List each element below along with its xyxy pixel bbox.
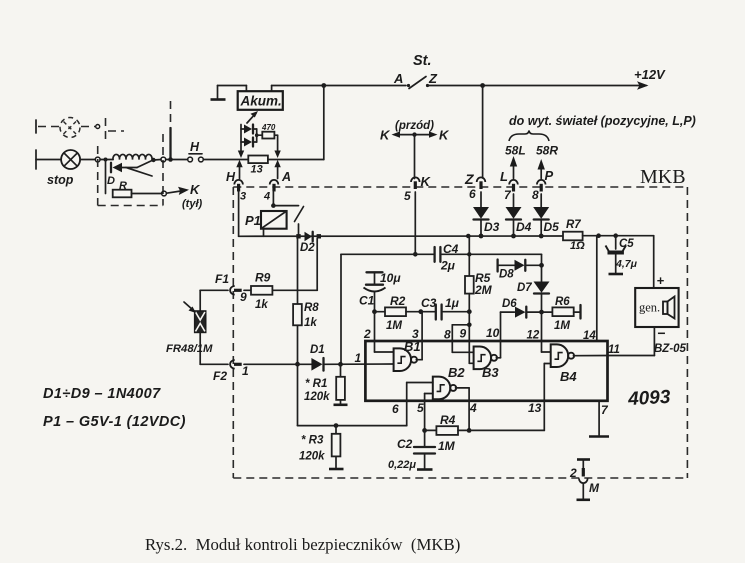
- svg-text:H: H: [190, 140, 200, 154]
- svg-text:R2: R2: [390, 294, 406, 308]
- svg-text:FR48/1M: FR48/1M: [166, 343, 213, 355]
- svg-text:D8: D8: [499, 269, 514, 281]
- svg-text:St.: St.: [413, 53, 432, 69]
- svg-text:D: D: [107, 175, 115, 187]
- svg-text:D1÷D9 – 1N4007: D1÷D9 – 1N4007: [43, 386, 161, 402]
- svg-text:R4: R4: [440, 413, 456, 427]
- svg-text:120k: 120k: [304, 391, 330, 403]
- svg-text:K: K: [380, 128, 391, 143]
- svg-text:P1 – G5V-1 (12VDC): P1 – G5V-1 (12VDC): [43, 414, 186, 430]
- svg-text:1: 1: [242, 364, 249, 378]
- svg-text:* R3: * R3: [301, 435, 324, 447]
- svg-text:1: 1: [355, 351, 362, 365]
- svg-text:1M: 1M: [438, 439, 456, 453]
- svg-text:D4: D4: [516, 220, 532, 234]
- svg-text:(przód): (przód): [395, 120, 434, 132]
- svg-text:1μ: 1μ: [445, 296, 460, 310]
- svg-text:2M: 2M: [474, 283, 493, 297]
- svg-text:10: 10: [486, 326, 500, 340]
- svg-text:−: −: [657, 325, 665, 341]
- svg-text:D6: D6: [502, 298, 517, 310]
- svg-text:13: 13: [528, 401, 542, 415]
- svg-text:K: K: [421, 174, 432, 189]
- svg-text:Z: Z: [428, 71, 438, 86]
- svg-text:B4: B4: [560, 369, 577, 384]
- svg-text:D1: D1: [310, 344, 325, 356]
- svg-text:2: 2: [569, 466, 577, 480]
- svg-text:58R: 58R: [536, 144, 558, 158]
- svg-text:F2: F2: [213, 369, 227, 383]
- svg-text:+12V: +12V: [634, 67, 666, 82]
- svg-text:BZ-05: BZ-05: [654, 343, 687, 355]
- svg-text:B2: B2: [448, 365, 465, 380]
- svg-text:MKB: MKB: [640, 166, 686, 188]
- svg-text:1Ω: 1Ω: [570, 240, 585, 252]
- svg-text:R7: R7: [566, 219, 581, 231]
- svg-text:C5: C5: [619, 238, 634, 250]
- svg-text:470: 470: [261, 123, 276, 132]
- svg-text:120k: 120k: [299, 451, 325, 463]
- svg-text:K: K: [439, 128, 450, 143]
- svg-text:8: 8: [444, 328, 451, 342]
- svg-text:6: 6: [392, 402, 399, 416]
- svg-text:4,7μ: 4,7μ: [615, 258, 638, 270]
- svg-text:1M: 1M: [554, 320, 570, 332]
- svg-text:P: P: [545, 168, 554, 183]
- svg-text:do wyt. świateł (pozycyjne, L,: do wyt. świateł (pozycyjne, L,P): [509, 114, 696, 128]
- svg-text:gen.: gen.: [639, 301, 660, 315]
- svg-text:0,22μ: 0,22μ: [388, 459, 416, 471]
- svg-text:2: 2: [363, 327, 371, 341]
- svg-text:C3: C3: [421, 296, 437, 310]
- svg-text:R8: R8: [304, 302, 319, 314]
- svg-text:11: 11: [608, 344, 620, 356]
- svg-text:M: M: [589, 481, 600, 495]
- svg-text:4: 4: [469, 401, 477, 415]
- svg-text:3: 3: [240, 191, 246, 203]
- svg-text:A: A: [281, 170, 291, 184]
- svg-text:D2: D2: [300, 242, 315, 254]
- svg-text:1k: 1k: [304, 317, 317, 329]
- svg-text:8: 8: [532, 188, 539, 202]
- svg-text:Z: Z: [464, 171, 474, 187]
- svg-text:+: +: [657, 273, 665, 288]
- svg-text:R9: R9: [255, 271, 271, 285]
- svg-text:58L: 58L: [505, 144, 526, 158]
- svg-text:2μ: 2μ: [440, 259, 456, 273]
- svg-text:Akum.: Akum.: [240, 94, 282, 109]
- svg-text:9: 9: [240, 290, 247, 304]
- svg-text:1M: 1M: [386, 320, 402, 332]
- svg-text:D7: D7: [517, 282, 532, 294]
- svg-text:10μ: 10μ: [380, 271, 401, 285]
- svg-text:C1: C1: [359, 294, 375, 308]
- svg-text:R6: R6: [555, 296, 570, 308]
- svg-text:* R1: * R1: [305, 378, 327, 390]
- svg-text:3: 3: [412, 327, 419, 341]
- svg-text:P1: P1: [245, 213, 261, 228]
- svg-text:D5: D5: [544, 220, 560, 234]
- svg-text:6: 6: [469, 187, 476, 201]
- svg-text:L: L: [500, 169, 508, 184]
- svg-text:K: K: [190, 182, 201, 197]
- svg-text:A: A: [393, 71, 403, 86]
- svg-text:4093: 4093: [627, 387, 672, 410]
- svg-text:(tył): (tył): [182, 198, 203, 210]
- svg-text:B3: B3: [482, 365, 499, 380]
- svg-text:9: 9: [460, 327, 467, 341]
- svg-text:5: 5: [417, 401, 424, 415]
- svg-text:B1: B1: [404, 339, 421, 354]
- svg-text:5: 5: [404, 189, 411, 203]
- svg-text:1k: 1k: [255, 299, 268, 311]
- svg-text:Rys.2. Moduł kontroli bezpiec: Rys.2. Moduł kontroli bezpieczników (MKB…: [145, 535, 460, 554]
- svg-text:F1: F1: [215, 272, 229, 286]
- svg-text:13: 13: [251, 164, 263, 176]
- svg-text:C2: C2: [397, 437, 413, 451]
- svg-text:stop: stop: [47, 173, 74, 187]
- svg-text:4: 4: [263, 191, 270, 203]
- svg-text:D3: D3: [484, 220, 500, 234]
